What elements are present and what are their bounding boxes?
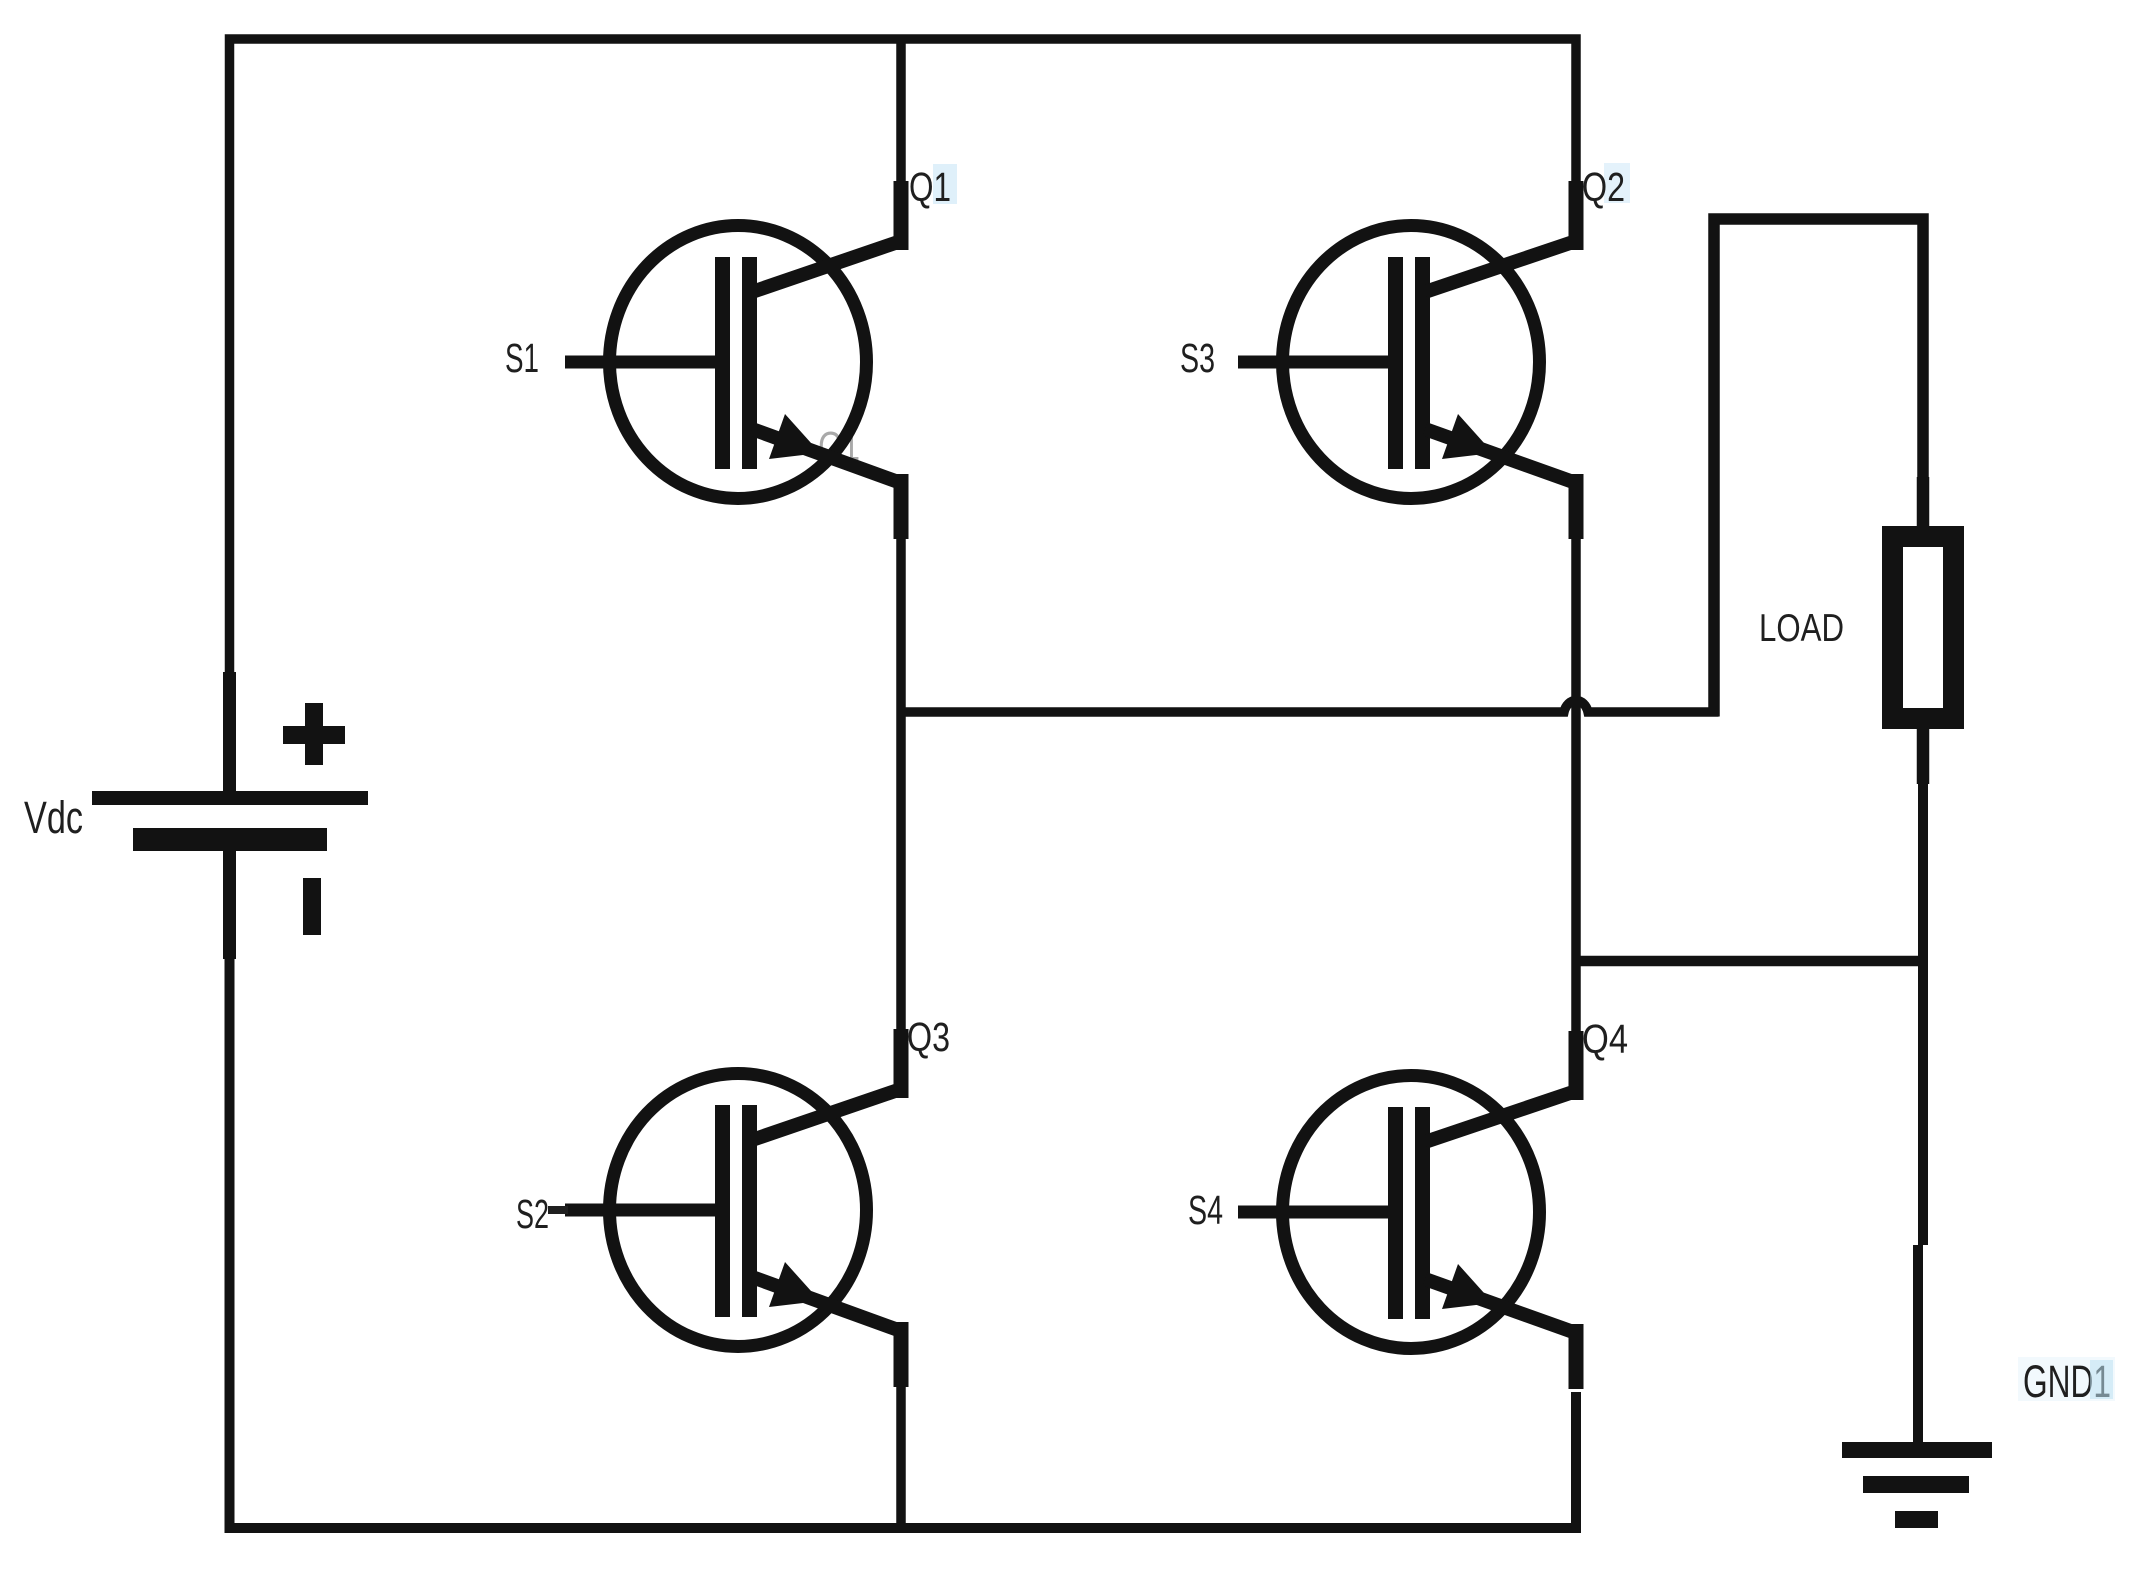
- wire: node A horizontal from left midpoint with hop over right leg to LOAD branch: [901, 700, 1719, 712]
- svg-text:LOAD: LOAD: [1759, 607, 1844, 650]
- svg-text:Q4: Q4: [1582, 1016, 1628, 1062]
- wire: top rail to Q1 collector: [896, 39, 906, 181]
- svg-text:Q1: Q1: [909, 164, 951, 210]
- resistor LOAD: [1893, 537, 1954, 719]
- svg-text:S2: S2: [516, 1191, 549, 1237]
- wire: Q1 emitter to Q3 collector (left bridge midpoint): [896, 535, 906, 1031]
- transistor Q1: [565, 181, 901, 539]
- ground GND1: [1842, 1442, 1992, 1528]
- svg-text:Q2: Q2: [1582, 164, 1625, 210]
- wire: Q3 emitter down to bottom rail: [896, 1384, 906, 1528]
- wire: LOAD branch loop (up, across top, down to resistor): [1714, 219, 1923, 717]
- svg-text:Vdc: Vdc: [24, 792, 83, 843]
- transistor Q2: [1238, 181, 1576, 539]
- battery minus sign: [303, 878, 321, 935]
- wire: node B horizontal from right midpoint to LOAD bottom: [1580, 956, 1923, 967]
- transistor Q3: [565, 1029, 901, 1387]
- label Q2 with selection artifact: [1604, 163, 1630, 203]
- transistor Q4: [1238, 1031, 1576, 1389]
- wire: Q2 emitter to Q4 collector (right bridge midpoint): [1571, 535, 1581, 1034]
- resistor LOAD pins: [1917, 477, 1930, 784]
- svg-text:Q3: Q3: [907, 1014, 950, 1060]
- svg-text:S4: S4: [1188, 1187, 1223, 1233]
- wire: resistor bottom through node B down to ground: [1918, 729, 1923, 1442]
- label Q1 with selection artifact: [933, 164, 957, 204]
- wire: top rail with left rail drop to battery + and right drop to Q2 collector: [230, 39, 1577, 791]
- battery plus sign: [283, 703, 345, 765]
- battery Vdc (DC source): [92, 672, 368, 959]
- label GND1 with selection artifact: [2018, 1357, 2115, 1401]
- wire: battery negative down, bottom rail, rise to Q4 emitter: [230, 851, 1577, 1528]
- svg-text:S1: S1: [505, 335, 539, 381]
- svg-text:S3: S3: [1180, 335, 1215, 381]
